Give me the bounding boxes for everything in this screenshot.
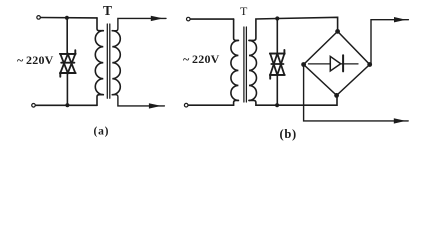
transformer T (b) secondary winding [249,40,257,100]
node: TVS top junction (b) [275,16,279,20]
node: bridge bottom corner [334,93,339,98]
wire: junction down to TVS (a) [66,18,68,54]
wire: terminal to primary (b) [191,18,234,20]
svg-text:~ 220V: ~ 220V [17,53,54,67]
transformer T (b) secondary lead top + wire to bridge [249,17,338,40]
wire: bottom terminal to primary (b) [189,104,234,106]
TVS V2 triangle pointing up [270,54,284,75]
terminal top-left (a) [37,16,41,20]
transformer T (b) core [244,27,247,102]
svg-text:(a): (a) [94,126,110,138]
node: TVS bottom junction (a) [65,103,69,107]
arrowhead output bottom (a) [149,103,161,108]
node: TVS top junction (a) [65,16,69,20]
svg-text:(b): (b) [280,127,297,141]
transformer T (b) primary lead bottom [234,100,239,105]
transformer T (a) primary lead top [97,18,103,31]
transformer T (b) primary winding [231,40,239,100]
arrowhead output top (b) [394,17,406,22]
transformer T (a) secondary lead bottom + output wire [112,95,164,106]
TVS V2 triangle pointing down [270,54,284,75]
wire: TVS to bottom wire (b) [276,75,278,105]
node: TVS bottom junction (b) [275,103,279,107]
bridge diode cathode bar [342,55,344,71]
transformer T (a) core [107,24,110,98]
wire: bridge right corner to top output [370,20,409,65]
svg-text:T: T [240,4,248,18]
bridge diode triangle [330,56,340,71]
terminal bottom-left (a) [32,104,36,108]
wire: junction down to TVS (b) [276,19,278,54]
bridge rectifier diamond [304,31,370,95]
TVS V2 bottom bar with zener tick [270,74,285,78]
node: bridge top corner [335,29,340,34]
TVS V1 bottom bar with zener tick [60,73,76,77]
wire: bridge left corner to bottom output [304,65,409,121]
bridge inner line [309,63,359,65]
node: bridge right corner [367,62,372,67]
svg-text:~ 220V: ~ 220V [183,52,220,66]
transformer T (a) primary lead bottom [97,95,103,106]
transformer T (a) secondary winding [112,31,120,95]
svg-text:T: T [103,3,112,18]
TVS V1 middle band [61,62,74,64]
node: bridge left corner [301,62,306,67]
TVS bidirectional suppressor V2 top bar with zener tick [270,50,285,54]
arrowhead output bottom (b) [394,118,406,123]
transformer T (a) secondary lead top + output wire [112,18,166,30]
wire: bottom-left terminal to primary (a) [36,104,97,106]
TVS V1 triangle pointing up [60,54,75,73]
TVS V1 triangle pointing down [60,54,75,73]
TVS bidirectional suppressor V1 top bar with zener tick [60,50,76,54]
wire: top-left terminal to primary (a) [41,17,97,19]
TVS V2 middle band [271,63,283,65]
wire: TVS to bottom wire (a) [66,73,68,105]
terminal bottom-left (b) [184,103,188,107]
transformer T (a) primary winding [95,31,103,95]
transformer T (b) primary lead top [234,19,239,40]
transformer T (b) secondary lead bottom + wire to bridge [249,95,337,105]
terminal top-left (b) [187,17,191,21]
arrowhead output top (a) [151,16,163,21]
